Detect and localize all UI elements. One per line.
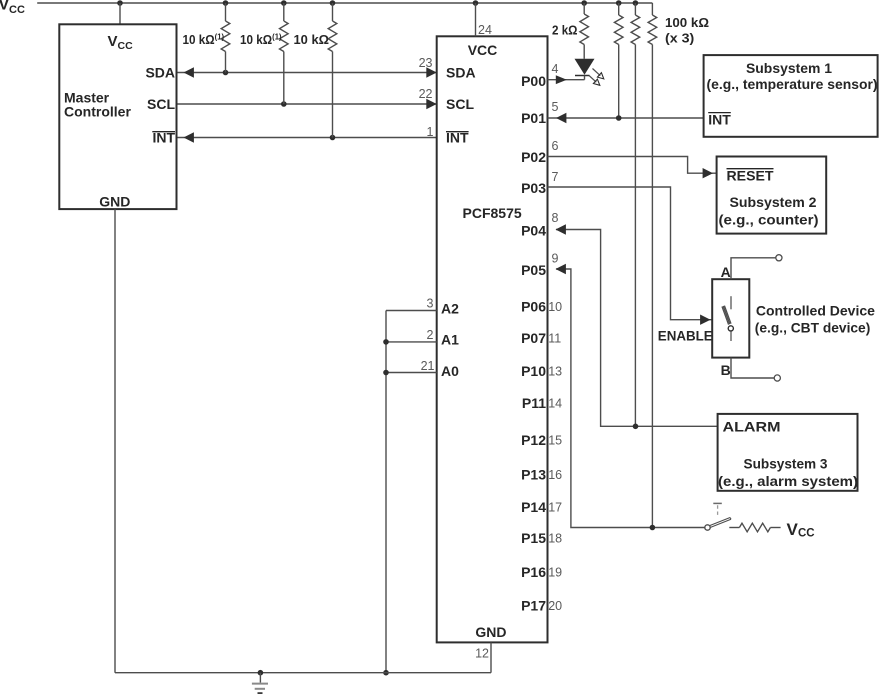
svg-text:(e.g., counter): (e.g., counter)	[719, 212, 819, 228]
svg-text:B: B	[721, 362, 731, 378]
Master SDA pin label	[145, 65, 175, 81]
label ENABLE	[658, 328, 713, 344]
pin number 9	[552, 252, 559, 266]
svg-text:Subsystem 3: Subsystem 3	[744, 456, 828, 472]
switch S1 top contact	[730, 296, 732, 309]
svg-text:17: 17	[548, 501, 562, 515]
wire SDA	[178, 72, 437, 74]
svg-text:P12: P12	[521, 432, 546, 448]
junction SDA pullup	[223, 70, 229, 76]
wire address ground drop	[385, 311, 387, 673]
svg-text:A: A	[721, 264, 731, 280]
pin number 13	[548, 365, 562, 379]
svg-text:10: 10	[548, 300, 562, 314]
IC P15 pin label	[521, 530, 546, 546]
svg-text:3: 3	[427, 297, 434, 311]
switch S1 lever	[722, 306, 731, 325]
junction INT pullup	[330, 135, 336, 141]
arrow SCL into PCF8575 pin 22	[426, 99, 436, 109]
pin number 23	[419, 56, 433, 70]
junction key pullup	[650, 525, 656, 531]
svg-text:20: 20	[548, 599, 562, 613]
pin number 1	[427, 125, 434, 139]
resistor R2 10 kOhm SCL pullup	[279, 3, 288, 104]
svg-text:11: 11	[548, 332, 561, 346]
IC P13 pin label	[521, 467, 546, 483]
IC P10 pin label	[521, 363, 546, 379]
IC GND pin label	[475, 624, 506, 640]
IC P17 pin label	[521, 598, 546, 614]
Vcc label top-left	[0, 0, 25, 16]
LED light arrows	[589, 69, 604, 86]
wire P03 enable	[548, 187, 713, 320]
wire Vcc top rail	[37, 2, 652, 4]
svg-text:P11: P11	[522, 395, 546, 411]
IC part name PCF8575	[463, 205, 522, 221]
label A terminal	[721, 264, 731, 280]
svg-text:GND: GND	[99, 194, 130, 210]
terminal A circle	[776, 255, 782, 261]
svg-text:A1: A1	[441, 332, 459, 348]
Controlled Device subtitle	[755, 320, 871, 336]
resistor R8 to Vcc	[729, 523, 780, 532]
arrow P00 output	[556, 75, 567, 84]
svg-text:SCL: SCL	[446, 96, 474, 112]
label Vcc pullup	[787, 520, 815, 539]
pin number 11	[548, 332, 561, 346]
svg-text:(e.g., CBT device): (e.g., CBT device)	[755, 320, 871, 336]
IC SDA pin label	[446, 65, 476, 81]
svg-text:2: 2	[427, 328, 434, 342]
Controlled device box S1	[712, 279, 749, 357]
svg-text:P15: P15	[521, 530, 546, 546]
svg-text:15: 15	[548, 434, 562, 448]
svg-text:GND: GND	[475, 624, 506, 640]
svg-text:P10: P10	[521, 363, 546, 379]
svg-text:12: 12	[475, 647, 489, 661]
svg-text:2 kΩ: 2 kΩ	[552, 23, 578, 38]
svg-text:CC: CC	[118, 40, 134, 52]
svg-text:SDA: SDA	[446, 65, 476, 81]
pin number 16	[548, 468, 562, 482]
label R4 2 kOhm	[552, 23, 578, 38]
IC P16 pin label	[521, 564, 546, 580]
junction alarm pullup	[633, 424, 639, 430]
pin number 19	[548, 566, 562, 580]
pin number 7	[552, 170, 559, 184]
wire SCL	[178, 103, 437, 105]
svg-text:(e.g., temperature sensor): (e.g., temperature sensor)	[707, 76, 878, 92]
junction R3 top	[330, 0, 336, 6]
svg-text:RESET: RESET	[727, 168, 774, 184]
pin number 12	[475, 647, 489, 661]
pin number 20	[548, 599, 562, 613]
wire ground bus	[115, 672, 491, 674]
junction P01 pullup	[616, 115, 622, 121]
IC P03 pin label	[521, 180, 546, 196]
IC VCC pin label	[468, 42, 498, 58]
svg-text:10 kΩ: 10 kΩ	[294, 32, 330, 47]
pin number 22	[419, 87, 433, 101]
svg-text:9: 9	[552, 252, 559, 266]
wire master GND drop	[114, 209, 116, 673]
svg-text:P17: P17	[521, 598, 546, 614]
wire IC Vcc pin 24	[475, 3, 477, 36]
junction 2k top	[581, 0, 587, 6]
Subsystem 3 title	[744, 456, 828, 472]
Master Controller name	[64, 90, 131, 120]
svg-text:16: 16	[548, 468, 562, 482]
Master GND pin label	[99, 194, 130, 210]
Subsystem 3 ALARM label	[723, 419, 781, 435]
pin number 15	[548, 434, 562, 448]
svg-text:6: 6	[552, 139, 559, 153]
junction IC Vcc	[473, 0, 479, 6]
IC INT pin label	[446, 130, 469, 146]
resistor R5 100 kOhm	[614, 3, 623, 118]
svg-text:5: 5	[552, 100, 559, 114]
svg-text:13: 13	[548, 365, 562, 379]
arrow SDA into PCF8575 pin 23	[426, 67, 436, 77]
wire P04 alarm	[556, 230, 718, 427]
pin number 6	[552, 139, 559, 153]
svg-text:1: 1	[427, 125, 434, 139]
wire P01 INT from subsystem1	[548, 117, 704, 119]
svg-text:P06: P06	[521, 299, 546, 315]
resistor R3 10 kOhm INT pullup	[328, 3, 337, 138]
wire terminal B	[731, 358, 774, 378]
wire P00 to LED	[548, 79, 585, 81]
LED D1	[575, 59, 595, 80]
IC P11 pin label	[522, 395, 546, 411]
IC A2 pin label	[441, 300, 459, 316]
arrow ENABLE into switch	[700, 315, 710, 325]
Controlled Device title	[756, 303, 875, 319]
junction 100k-1 top	[616, 0, 622, 6]
ground symbol	[252, 673, 268, 694]
resistor R4 2 kOhm	[580, 3, 589, 59]
svg-text:P04: P04	[521, 223, 546, 239]
Subsystem 1 subtitle	[707, 76, 878, 92]
Subsystem 1 INT label	[708, 112, 731, 128]
svg-text:SCL: SCL	[147, 96, 175, 112]
svg-text:23: 23	[419, 56, 433, 70]
resistor R1 10 kOhm SDA pullup	[221, 3, 230, 73]
svg-text:CC: CC	[9, 4, 25, 16]
wire P02 reset	[548, 157, 717, 174]
Subsystem 2 RESET label	[727, 168, 774, 184]
svg-text:V: V	[787, 520, 799, 539]
resistor R6 100 kOhm	[631, 3, 640, 426]
resistor R7 100 kOhm	[648, 3, 657, 528]
svg-text:ALARM: ALARM	[723, 419, 781, 435]
IC P14 pin label	[521, 499, 546, 515]
svg-text:21: 21	[421, 359, 435, 373]
IC A0 pin label	[441, 363, 459, 379]
switch S2 pole circle	[705, 525, 710, 530]
pin number 17	[548, 501, 562, 515]
switch S1 pole circle	[728, 326, 733, 331]
Subsystem 1 box	[704, 55, 878, 137]
label 100 kOhm x3	[665, 15, 709, 46]
wire A2 to ground bus	[386, 310, 437, 312]
svg-text:19: 19	[548, 566, 562, 580]
IC P07 pin label	[521, 330, 546, 346]
svg-text:P03: P03	[521, 180, 546, 196]
pin number 24	[478, 23, 492, 37]
IC P12 pin label	[521, 432, 546, 448]
wire terminal A	[731, 258, 776, 279]
svg-text:P16: P16	[521, 564, 546, 580]
PCF8575 IC box U1	[437, 36, 548, 642]
wire A1 to ground bus	[386, 341, 437, 343]
svg-text:100 kΩ: 100 kΩ	[665, 15, 709, 30]
arrow P05 input	[556, 264, 566, 274]
label R1 10 kOhm	[183, 32, 225, 48]
svg-text:VCC: VCC	[468, 42, 498, 58]
wire master Vcc drop	[119, 3, 121, 24]
junction ground-symbol	[258, 670, 264, 676]
Master Vcc pin label	[108, 33, 134, 52]
IC P04 pin label	[521, 223, 546, 239]
junction SCL pullup	[281, 101, 287, 107]
svg-text:(e.g., alarm system): (e.g., alarm system)	[718, 473, 858, 489]
junction A1	[383, 339, 389, 345]
wire P05 key	[556, 269, 705, 528]
svg-text:P07: P07	[521, 330, 546, 346]
label R2 10 kOhm	[240, 32, 282, 48]
Subsystem 2 box	[717, 157, 827, 234]
IC A1 pin label	[441, 332, 459, 348]
junction R2 top	[281, 0, 287, 6]
pin number 10	[548, 300, 562, 314]
svg-text:P02: P02	[521, 149, 546, 165]
IC P06 pin label	[521, 299, 546, 315]
svg-text:18: 18	[548, 532, 562, 546]
pin number 5	[552, 100, 559, 114]
svg-text:P13: P13	[521, 467, 546, 483]
IC GND pin 12 wire	[490, 642, 492, 672]
pin number 14	[548, 397, 562, 411]
svg-text:7: 7	[552, 170, 559, 184]
svg-text:CC: CC	[798, 527, 815, 539]
svg-text:14: 14	[548, 397, 562, 411]
pin number 3	[427, 297, 434, 311]
junction address-gnd	[383, 670, 389, 676]
arrow P04 input	[556, 224, 566, 234]
Master INT pin label	[152, 130, 175, 146]
pin number 8	[552, 211, 559, 225]
junction R1 top	[223, 0, 229, 6]
svg-text:4: 4	[552, 62, 559, 76]
wire INT	[178, 137, 437, 139]
junction master Vcc	[117, 0, 123, 6]
IC P01 pin label	[521, 110, 546, 126]
wire A0 to ground bus	[386, 372, 437, 374]
svg-text:Controller: Controller	[64, 104, 131, 120]
svg-text:INT: INT	[708, 112, 731, 128]
arrow INT into master	[184, 132, 194, 142]
Subsystem 3 subtitle	[718, 473, 858, 489]
svg-text:Controlled Device: Controlled Device	[756, 303, 875, 319]
arrow P01 input	[556, 113, 566, 123]
Subsystem 2 title	[730, 194, 817, 210]
svg-text:SDA: SDA	[145, 65, 175, 81]
svg-text:A2: A2	[441, 300, 459, 316]
svg-text:V: V	[108, 33, 118, 50]
IC P02 pin label	[521, 149, 546, 165]
svg-text:PCF8575: PCF8575	[463, 205, 522, 221]
pin number 4	[552, 62, 559, 76]
svg-text:ENABLE: ENABLE	[658, 328, 713, 344]
Subsystem 2 subtitle	[719, 212, 819, 228]
svg-text:22: 22	[419, 87, 433, 101]
arrow RESET into subsystem2	[703, 168, 713, 178]
svg-text:24: 24	[478, 23, 492, 37]
IC P05 pin label	[521, 262, 546, 278]
svg-text:A0: A0	[441, 363, 459, 379]
svg-text:Subsystem 1: Subsystem 1	[746, 60, 832, 76]
Subsystem 3 box	[718, 414, 858, 491]
IC P00 pin label	[521, 73, 546, 89]
pin number 21	[421, 359, 435, 373]
switch S2 actuator	[713, 503, 722, 517]
svg-text:8: 8	[552, 211, 559, 225]
svg-text:P01: P01	[521, 110, 546, 126]
junction A0	[383, 370, 389, 376]
arrow SDA into master	[184, 67, 194, 77]
svg-text:Subsystem 2: Subsystem 2	[730, 194, 817, 210]
svg-text:P00: P00	[521, 73, 546, 89]
label R3 10 kOhm	[294, 32, 330, 47]
svg-text:(x 3): (x 3)	[665, 31, 694, 46]
switch S2 lever	[710, 518, 731, 528]
pin number 18	[548, 532, 562, 546]
junction 100k-2 top	[633, 0, 639, 6]
Subsystem 1 title	[746, 60, 832, 76]
svg-text:P14: P14	[521, 499, 546, 515]
label B terminal	[721, 362, 731, 378]
Master SCL pin label	[147, 96, 175, 112]
IC SCL pin label	[446, 96, 474, 112]
terminal B circle	[774, 375, 780, 381]
pin number 2	[427, 328, 434, 342]
switch S1 bottom contact	[730, 332, 732, 342]
Master Controller box U2	[59, 24, 176, 209]
svg-text:P05: P05	[521, 262, 546, 278]
